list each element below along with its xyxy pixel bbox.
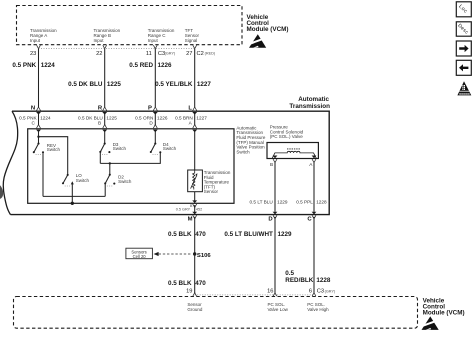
label: Pressure Control Solenoid (PC SOL.) Valve <box>270 124 304 139</box>
svg-text:1225: 1225 <box>106 116 117 121</box>
pin 11 C3 <box>146 45 176 57</box>
connector pin C (inner box) <box>36 125 41 133</box>
wire 0.5 RED 1226 (pin 11 to P) <box>129 49 172 107</box>
label: Transmission Range A Input <box>30 28 57 43</box>
wire 0.5 DK BLU 1225 (pin 22 to R) <box>68 49 121 107</box>
svg-text:19: 19 <box>186 289 192 295</box>
connector pin A (solenoid) <box>312 156 317 163</box>
node: splice S106 <box>193 252 211 259</box>
svg-text:1228: 1228 <box>316 277 331 284</box>
wire bus to D2 switch <box>109 163 111 174</box>
connector pin B (solenoid) <box>273 156 278 163</box>
connector D (transmission bottom) <box>273 212 278 219</box>
svg-text:C3: C3 <box>317 289 324 295</box>
svg-text:0.5: 0.5 <box>285 270 294 277</box>
node: junction middle bus <box>109 162 111 164</box>
svg-text:D: D <box>268 217 272 223</box>
svg-text:0.5 RED: 0.5 RED <box>129 62 153 69</box>
wire D3 to middle bus <box>99 152 101 164</box>
wire 0.5 RED/BLK 1228 (C to pin 6) <box>285 217 331 293</box>
svg-text:1226: 1226 <box>157 116 168 121</box>
icon: Loc button <box>456 2 471 17</box>
svg-text:0.5 PPL: 0.5 PPL <box>296 200 313 205</box>
svg-text:R: R <box>98 105 103 111</box>
svg-text:Switch: Switch <box>76 178 90 183</box>
svg-text:L: L <box>188 105 192 111</box>
svg-text:N: N <box>31 105 35 111</box>
svg-text:1224: 1224 <box>41 62 56 69</box>
icon: forward arrow button <box>456 41 471 56</box>
wire 0.5 BLK 470 (M to S106) <box>168 217 206 254</box>
VCM module box (top) <box>17 6 243 45</box>
D4 switch <box>150 142 177 155</box>
svg-text:Module (VCM): Module (VCM) <box>247 26 289 33</box>
svg-text:Input: Input <box>94 38 105 43</box>
svg-text:B: B <box>270 162 273 167</box>
svg-text:Module (VCM): Module (VCM) <box>423 310 465 317</box>
wire 0.5 PNK 1224 (pin 23 to N) <box>12 49 55 107</box>
connector P <box>148 105 158 114</box>
wire pin D to D4 switch <box>154 132 156 144</box>
label: Transmission Fluid Temperature (TFT) Sensor <box>204 170 231 194</box>
svg-text:B: B <box>190 204 193 208</box>
label: PC SOL. Valve High <box>307 302 329 312</box>
page-curl shading (left edge) <box>0 185 3 199</box>
svg-text:452: 452 <box>196 208 202 212</box>
svg-text:Switch: Switch <box>47 147 61 152</box>
wire pin B to D3 switch <box>104 132 106 144</box>
connector dotted line (bottom VCM pins) <box>195 294 314 296</box>
svg-text:1226: 1226 <box>158 62 173 69</box>
svg-text:C: C <box>307 217 312 223</box>
svg-text:(GRY): (GRY) <box>325 289 336 293</box>
label: Automatic Transmission Fluid Pressure (TFP) Manual Valve Position Switch <box>236 125 266 154</box>
pin 23 <box>30 45 40 57</box>
svg-text:Switch: Switch <box>236 149 250 154</box>
svg-text:C2: C2 <box>197 51 204 57</box>
node: junction at TFP box edge <box>71 202 74 205</box>
D2 switch <box>104 174 132 186</box>
connector dotted line (VCM C1/C2/C3 pins) <box>39 47 195 49</box>
LO switch <box>62 173 90 186</box>
connector N <box>31 105 41 114</box>
svg-text:23: 23 <box>30 51 36 57</box>
connector pin D (inner box) <box>153 125 158 133</box>
wire D2 to bottom bus <box>104 183 106 196</box>
icon: ESD warning triangle <box>457 81 471 95</box>
pin 6 C3 <box>309 289 336 297</box>
svg-text:1229: 1229 <box>278 231 293 238</box>
wire REV switch to bottom bus <box>42 152 44 196</box>
D3 switch <box>99 142 126 155</box>
svg-text:16: 16 <box>267 289 273 295</box>
svg-text:RED/BLK: RED/BLK <box>285 277 313 284</box>
svg-text:(PC SOL.) Valve: (PC SOL.) Valve <box>270 134 303 139</box>
label: Sensor Ground <box>187 302 203 312</box>
svg-text:1224: 1224 <box>40 116 51 121</box>
connector pin B (TFP box bottom) <box>192 200 197 207</box>
connector pin A (inner box) <box>192 125 197 133</box>
leader arrow to Sensors Cell 20 <box>154 252 192 256</box>
svg-text:470: 470 <box>195 231 206 238</box>
svg-text:(GRY): (GRY) <box>165 51 176 55</box>
label: Transmission Range B Input <box>94 28 121 43</box>
svg-text:Sensor: Sensor <box>204 189 219 194</box>
svg-text:Input: Input <box>30 38 41 43</box>
svg-text:S106: S106 <box>197 253 211 259</box>
TFP manual valve position switch box <box>28 129 234 204</box>
wire pin A to TFT sensor <box>194 132 196 171</box>
svg-text:470: 470 <box>195 280 206 287</box>
wire TFT sensor to pin B (bottom of TFP box) <box>194 192 196 201</box>
node: junction C branch <box>37 136 39 138</box>
icon: back arrow button <box>456 60 471 75</box>
connector R <box>98 105 107 114</box>
wire 0.5 YEL/BLK 1227 (pin 27 to L) <box>155 49 211 107</box>
svg-text:0.5 BLK: 0.5 BLK <box>168 280 192 287</box>
connector pin B (inner box) <box>102 125 107 133</box>
svg-text:1227: 1227 <box>196 116 207 121</box>
svg-text:B: B <box>98 121 101 126</box>
ESD notice symbol (bottom VCM) <box>421 316 439 330</box>
wire 0.5 DK BLU 1225 (R to pin B) <box>78 114 117 126</box>
wire branch to LO switch <box>39 137 68 175</box>
svg-text:Switch: Switch <box>118 179 132 184</box>
middle bus wire <box>100 152 160 163</box>
svg-text:Switch: Switch <box>113 146 127 151</box>
svg-text:0.5 DK BLU: 0.5 DK BLU <box>68 81 103 88</box>
label: TFT Sensor Signal <box>185 28 200 43</box>
wire pin C to REV switch <box>38 132 40 144</box>
svg-text:27: 27 <box>186 51 192 57</box>
svg-text:Switch: Switch <box>163 146 177 151</box>
svg-text:0.5 YEL/BLK: 0.5 YEL/BLK <box>155 81 193 88</box>
Automatic Transmission label <box>289 96 330 110</box>
svg-text:Cell 20: Cell 20 <box>133 254 147 259</box>
ESD notice symbol (top VCM) <box>248 34 266 48</box>
label: Transmission Range C Input <box>148 28 175 43</box>
PC solenoid valve <box>267 143 318 159</box>
wire 0.5 BRN 1227 (L to pin A) <box>175 114 207 126</box>
svg-text:M: M <box>188 217 193 223</box>
pin 19 <box>186 289 197 297</box>
svg-text:22: 22 <box>96 51 102 57</box>
wire 0.5 PNK 1224 (N to pin C) <box>19 114 51 126</box>
wire LO switch to case ground dot <box>71 184 73 203</box>
wire 0.5 PPL 1228 (solenoid A to C) <box>296 162 327 212</box>
svg-text:1227: 1227 <box>197 81 212 88</box>
wire 0.5 LT BLU 1229 (solenoid B to D) <box>250 162 288 212</box>
wire 0.5 ORN 1226 (P to pin D) <box>135 114 168 126</box>
svg-text:P: P <box>148 105 152 111</box>
svg-text:D: D <box>149 121 153 126</box>
pin 22 <box>96 45 107 57</box>
VCM module box (bottom) <box>14 297 418 329</box>
wire 0.5 GRY 452 (pin B to M) <box>176 204 203 212</box>
svg-text:0.5 PNK: 0.5 PNK <box>12 62 36 69</box>
connector L <box>188 105 197 114</box>
bottom bus wire (REV to D2) <box>43 195 105 197</box>
svg-text:0.5 BLK: 0.5 BLK <box>168 231 192 238</box>
svg-text:Valve Low: Valve Low <box>268 307 289 312</box>
svg-text:Ground: Ground <box>187 307 203 312</box>
svg-text:0.5 LT BLU/WHT: 0.5 LT BLU/WHT <box>224 231 273 238</box>
svg-text:Valve High: Valve High <box>307 307 329 312</box>
REV switch <box>33 143 61 155</box>
TFT sensor (thermistor) <box>188 170 203 192</box>
wire 0.5 BLK 470 (S106 to pin 19) <box>168 254 206 293</box>
svg-text:1229: 1229 <box>277 200 288 205</box>
svg-text:Input: Input <box>148 38 159 43</box>
svg-text:6: 6 <box>309 289 312 295</box>
pin 16 <box>267 289 277 297</box>
connector C (transmission bottom) <box>312 212 317 219</box>
Automatic Transmission box outline <box>3 111 329 214</box>
svg-text:1228: 1228 <box>316 200 327 205</box>
pin 27 C2 <box>186 45 216 57</box>
reference: Sensors Cell 20 <box>126 248 152 259</box>
wire 0.5 LT BLU/WHT 1229 (D to pin 16) <box>224 217 292 293</box>
connector M (transmission bottom) <box>192 212 197 219</box>
label: PC SOL. Valve Low <box>268 302 289 312</box>
svg-text:Signal: Signal <box>185 38 198 43</box>
icon: Desc button <box>456 22 471 36</box>
svg-text:1225: 1225 <box>107 81 122 88</box>
svg-text:11: 11 <box>146 51 152 57</box>
svg-text:0.5 GRY: 0.5 GRY <box>176 208 191 212</box>
svg-text:(RED): (RED) <box>205 51 216 55</box>
label: Vehicle Control Module (VCM) top <box>247 14 289 33</box>
label: Vehicle Control Module (VCM) bottom <box>423 298 465 317</box>
svg-text:Transmission: Transmission <box>289 103 330 110</box>
svg-text:0.5 LT BLU: 0.5 LT BLU <box>250 200 274 205</box>
